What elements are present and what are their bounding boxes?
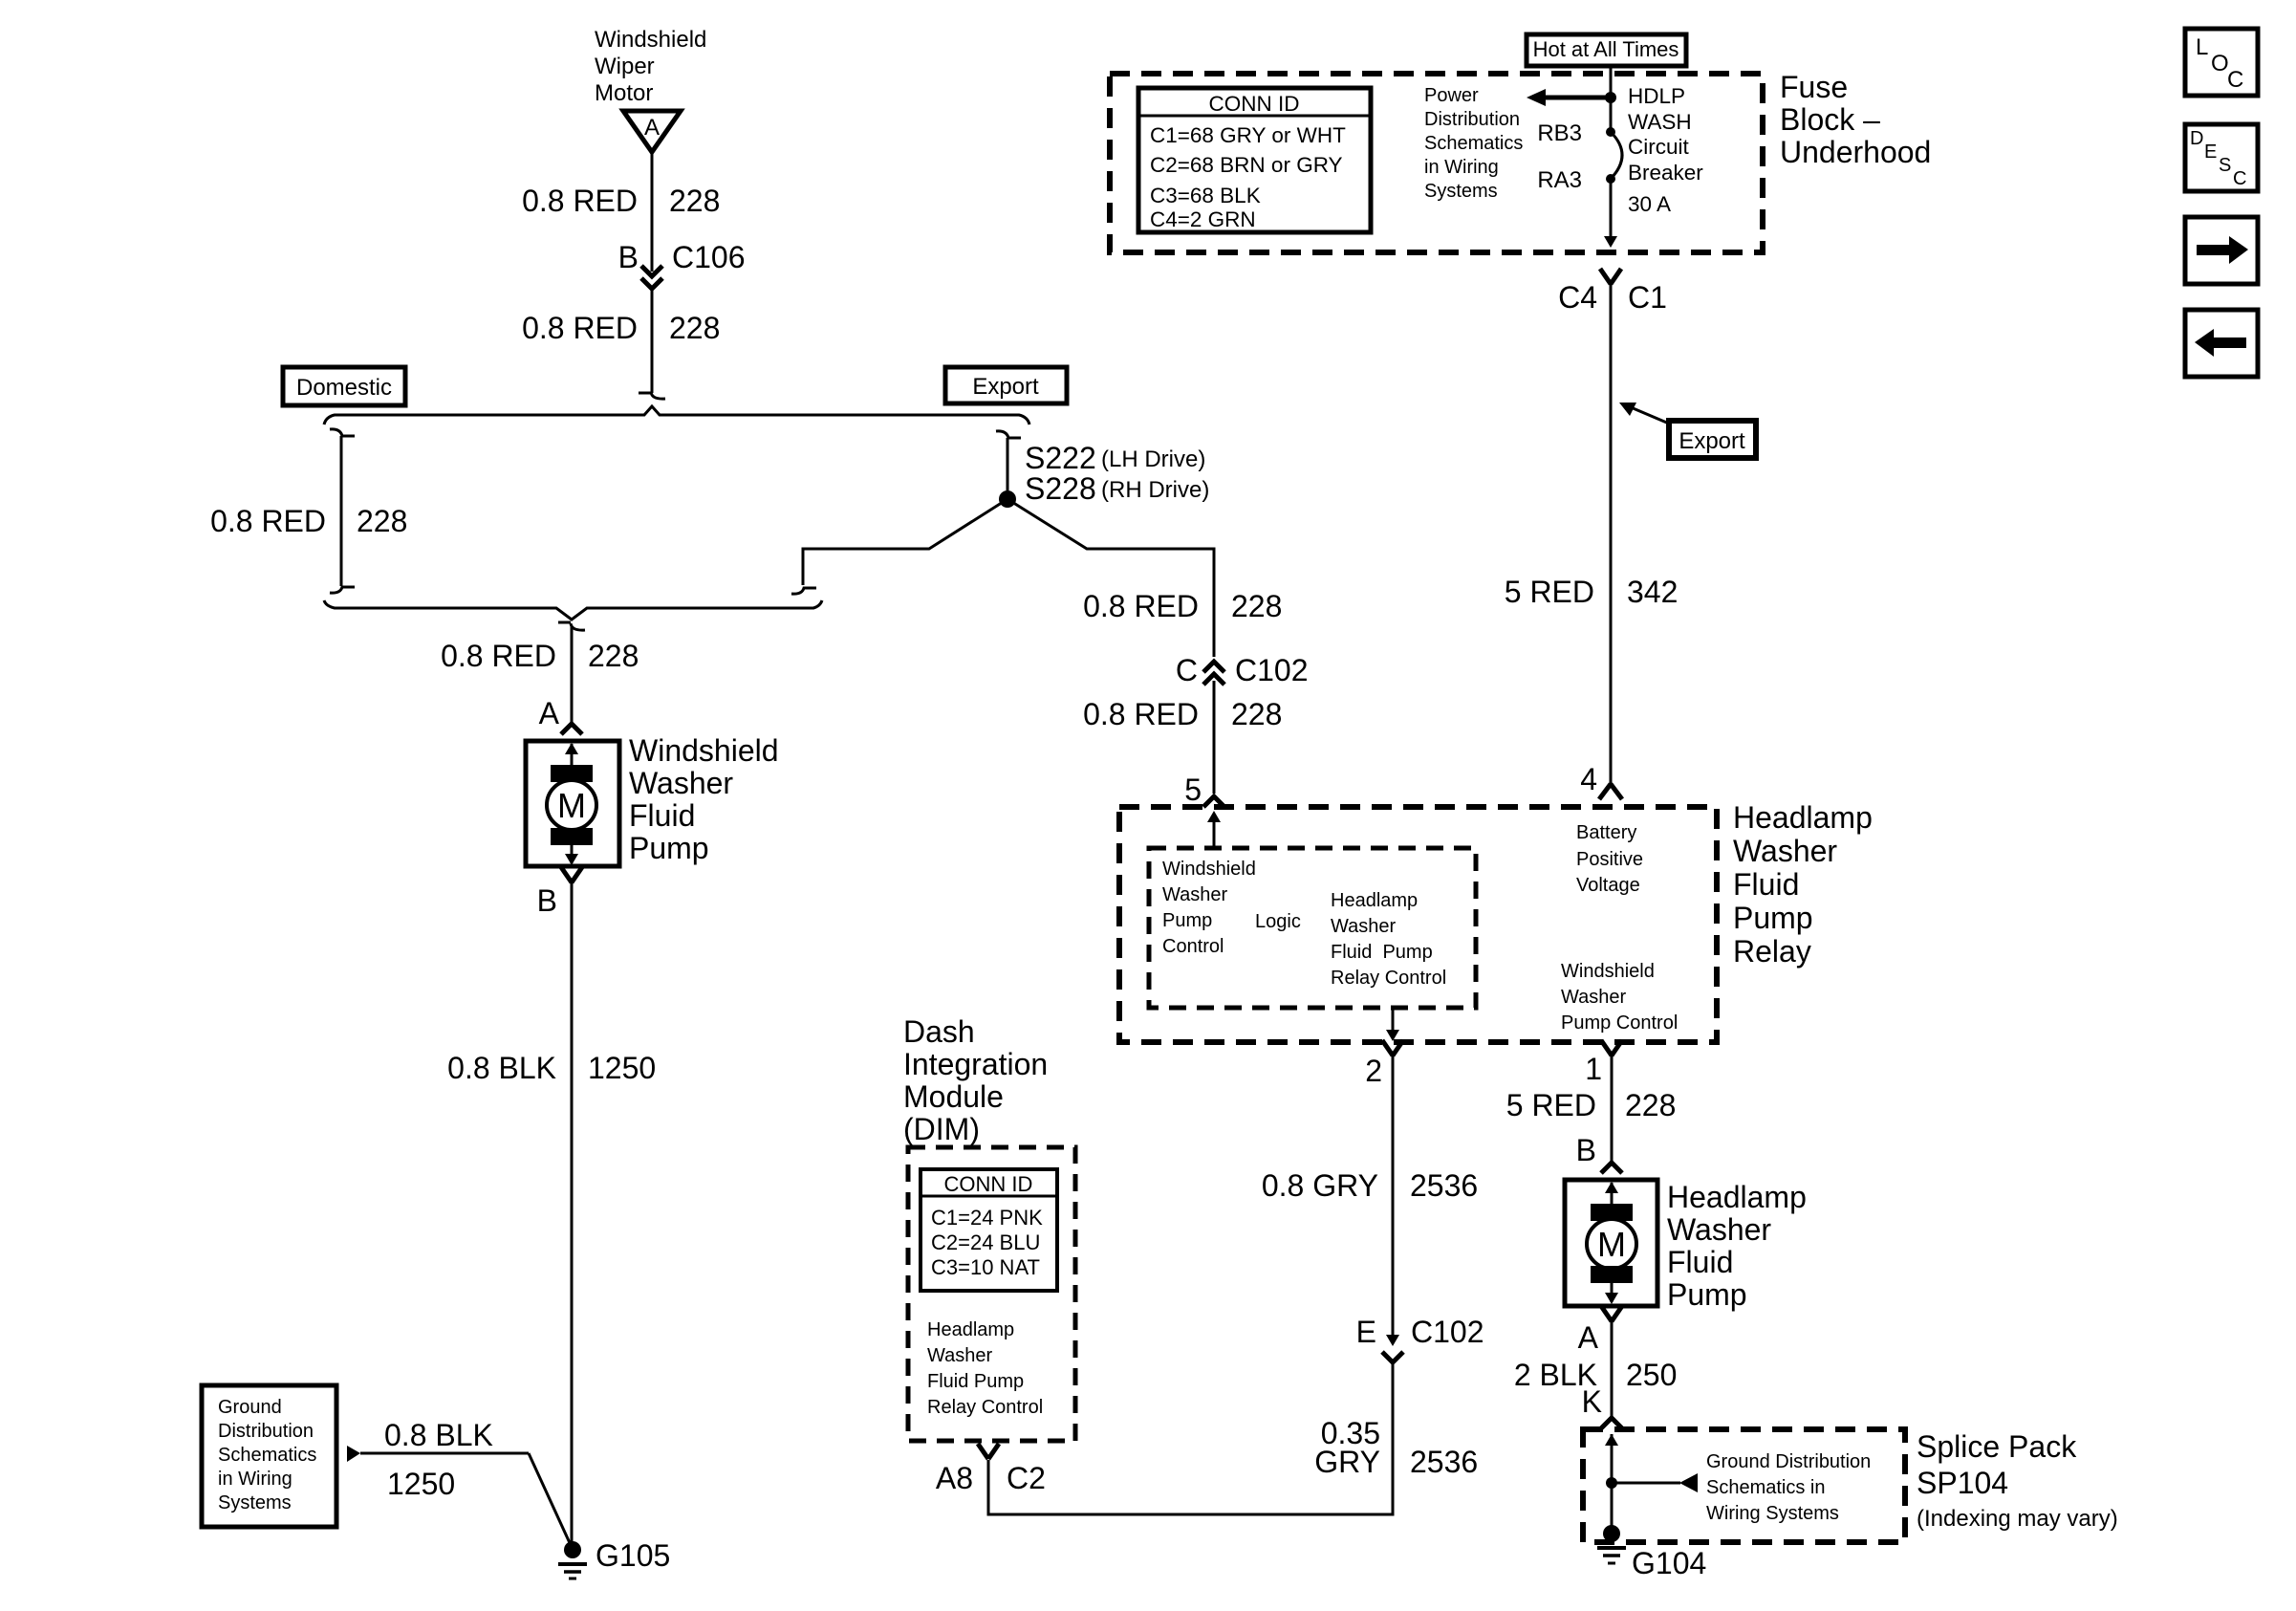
svg-text:C1: C1 bbox=[1628, 280, 1667, 315]
svg-text:Control: Control bbox=[1162, 936, 1224, 957]
connector fork at relay pin 2 bbox=[1382, 1040, 1403, 1056]
svg-text:Pump: Pump bbox=[629, 831, 709, 865]
svg-text:C1=24 PNK: C1=24 PNK bbox=[931, 1206, 1043, 1230]
svg-text:C4=2 GRN: C4=2 GRN bbox=[1150, 207, 1256, 231]
splice S222/S228 bbox=[999, 490, 1016, 508]
svg-text:A8: A8 bbox=[936, 1461, 973, 1495]
svg-text:228: 228 bbox=[669, 184, 720, 218]
svg-text:Hot at All Times: Hot at All Times bbox=[1533, 37, 1679, 61]
svg-text:G105: G105 bbox=[596, 1538, 670, 1573]
dash integration module label bbox=[903, 1014, 1048, 1146]
bottom options brace bbox=[324, 600, 822, 620]
ground G105 bbox=[558, 1541, 587, 1578]
svg-text:M: M bbox=[1597, 1225, 1626, 1264]
svg-text:Schematics in: Schematics in bbox=[1706, 1477, 1826, 1498]
reference arrow to ground distribution (splice pack) bbox=[1612, 1473, 1698, 1492]
svg-text:Wiper: Wiper bbox=[595, 54, 655, 79]
CONN ID table (fuse block) bbox=[1138, 88, 1371, 232]
svg-text:C106: C106 bbox=[672, 240, 746, 274]
svg-text:E: E bbox=[2204, 142, 2217, 163]
svg-text:Headlamp: Headlamp bbox=[1331, 890, 1418, 911]
svg-text:S228: S228 bbox=[1025, 471, 1096, 506]
in-line connector E C102 chevron bbox=[1382, 1352, 1403, 1362]
ground distribution reference text (splice pack) bbox=[1706, 1451, 1871, 1524]
wire inside splice pack with up arrow bbox=[1605, 1434, 1618, 1530]
Hot at All Times label box bbox=[1527, 34, 1686, 66]
svg-text:1: 1 bbox=[1585, 1052, 1602, 1086]
svg-text:in Wiring: in Wiring bbox=[1424, 157, 1499, 178]
svg-text:Breaker: Breaker bbox=[1628, 161, 1703, 185]
svg-text:0.8 RED: 0.8 RED bbox=[522, 311, 638, 345]
svg-text:0.8 RED: 0.8 RED bbox=[1083, 697, 1199, 731]
svg-text:Module: Module bbox=[903, 1079, 1004, 1114]
wire from wiper motor pin A down to C106 bbox=[651, 152, 654, 272]
svg-text:Relay Control: Relay Control bbox=[1331, 968, 1446, 989]
connector chevron at pump pin A bbox=[561, 724, 582, 734]
svg-text:Integration: Integration bbox=[903, 1047, 1048, 1081]
svg-text:Pump: Pump bbox=[1733, 901, 1813, 935]
svg-text:(DIM): (DIM) bbox=[903, 1112, 980, 1146]
svg-text:Headlamp: Headlamp bbox=[1667, 1180, 1807, 1214]
svg-text:Logic: Logic bbox=[1255, 911, 1301, 932]
wire end curl above top brace bbox=[639, 392, 665, 399]
svg-text:250: 250 bbox=[1626, 1358, 1677, 1392]
wire splice to right (to middle branch) bbox=[1007, 499, 1214, 657]
wire label 5 RED 228 bbox=[1506, 1088, 1677, 1122]
wire from bottom brace to washer pump bbox=[571, 626, 574, 725]
relay pin 4 function text battery positive voltage bbox=[1576, 822, 1643, 896]
svg-text:M: M bbox=[557, 786, 586, 825]
Export label box (right) bbox=[1669, 421, 1756, 458]
svg-text:Underhood: Underhood bbox=[1780, 135, 1931, 169]
svg-text:Wiring Systems: Wiring Systems bbox=[1706, 1503, 1839, 1524]
svg-text:Washer: Washer bbox=[1667, 1212, 1771, 1247]
svg-text:C2=24 BLU: C2=24 BLU bbox=[931, 1230, 1040, 1254]
export branch wire stub below top brace bbox=[996, 431, 1021, 490]
svg-text:Block –: Block – bbox=[1780, 102, 1880, 137]
svg-text:Fluid: Fluid bbox=[1667, 1245, 1733, 1279]
dash integration module dashed box bbox=[908, 1147, 1075, 1441]
svg-text:Distribution: Distribution bbox=[1424, 109, 1520, 130]
svg-text:0.8 RED: 0.8 RED bbox=[441, 639, 556, 673]
svg-text:Washer: Washer bbox=[1162, 884, 1228, 905]
svg-text:Splice Pack: Splice Pack bbox=[1917, 1429, 2077, 1464]
wire relay pin 2 down to E C102 bbox=[1386, 1056, 1399, 1346]
svg-text:C1=68 GRY or WHT: C1=68 GRY or WHT bbox=[1150, 123, 1346, 147]
svg-text:Domestic: Domestic bbox=[296, 375, 392, 401]
svg-text:Systems: Systems bbox=[218, 1492, 292, 1513]
relay internal text headlamp washer fluid pump relay control bbox=[1331, 890, 1446, 989]
svg-text:SP104: SP104 bbox=[1917, 1466, 2008, 1500]
svg-text:K: K bbox=[1582, 1384, 1602, 1419]
svg-text:S222: S222 bbox=[1025, 441, 1096, 475]
svg-text:0.8 GRY: 0.8 GRY bbox=[1262, 1168, 1378, 1203]
wire from hot feed into fuse block bbox=[1610, 66, 1613, 98]
wire label 0.35 GRY 2536 bbox=[1314, 1416, 1478, 1479]
svg-text:Washer: Washer bbox=[1331, 916, 1397, 937]
svg-text:0.8 BLK: 0.8 BLK bbox=[384, 1418, 493, 1452]
wire logic box to relay pin 2 with down arrow bbox=[1386, 1008, 1399, 1041]
connector chevron at headlamp pump pin B bbox=[1601, 1163, 1622, 1173]
connector fork at pump pin B bbox=[561, 867, 582, 882]
connector chevron at splice pack pin K bbox=[1601, 1418, 1622, 1428]
svg-text:G104: G104 bbox=[1632, 1546, 1706, 1580]
wire C102 to relay pin 5 bbox=[1213, 681, 1216, 794]
fuse block underhood label bbox=[1780, 70, 1931, 169]
wire label 0.8 BLK 1250 (ground branch) bbox=[384, 1418, 493, 1501]
svg-text:228: 228 bbox=[1231, 697, 1282, 731]
svg-text:GRY: GRY bbox=[1314, 1445, 1380, 1479]
svg-text:CONN ID: CONN ID bbox=[1209, 92, 1300, 116]
svg-text:C3=10 NAT: C3=10 NAT bbox=[931, 1255, 1040, 1279]
svg-text:Washer: Washer bbox=[1733, 834, 1837, 868]
connector fork at relay pin 4 bbox=[1599, 784, 1622, 799]
wire E C102 down and left to DIM bbox=[988, 1362, 1393, 1514]
svg-text:228: 228 bbox=[1231, 589, 1282, 623]
svg-text:1250: 1250 bbox=[588, 1051, 656, 1085]
svg-text:C102: C102 bbox=[1235, 653, 1309, 687]
power distribution reference text bbox=[1424, 85, 1523, 202]
svg-text:Ground: Ground bbox=[218, 1397, 282, 1418]
svg-text:O: O bbox=[2211, 51, 2229, 76]
svg-text:Windshield: Windshield bbox=[595, 27, 706, 53]
wire relay pin 5 into logic box with up arrow bbox=[1207, 811, 1221, 848]
svg-text:C3=68 BLK: C3=68 BLK bbox=[1150, 184, 1261, 207]
in-line connector C106 chevrons bbox=[641, 266, 662, 289]
windshield washer fluid pump label bbox=[629, 733, 779, 865]
wire label 0.8 RED 228 (middle branch upper) bbox=[1083, 589, 1282, 623]
wire relay pin 1 to headlamp washer pump bbox=[1611, 1056, 1614, 1163]
svg-text:C2: C2 bbox=[1007, 1461, 1046, 1495]
motor M1 windshield washer fluid pump bbox=[526, 741, 619, 866]
connector fork at relay pin 1 bbox=[1601, 1040, 1622, 1056]
circuit breaker element bbox=[1611, 132, 1622, 179]
reference arrow to power distribution bbox=[1527, 89, 1611, 106]
connector fork C4/C1 bbox=[1600, 269, 1621, 284]
svg-text:Schematics: Schematics bbox=[1424, 133, 1523, 154]
relay logic inner dashed box bbox=[1149, 848, 1476, 1008]
svg-text:342: 342 bbox=[1627, 575, 1678, 609]
svg-text:2: 2 bbox=[1365, 1054, 1382, 1088]
wire label 2 BLK 250 bbox=[1514, 1358, 1678, 1392]
svg-text:B: B bbox=[537, 883, 557, 918]
svg-text:WASH: WASH bbox=[1628, 110, 1692, 134]
wire headlamp pump A to splice pack bbox=[1611, 1321, 1614, 1418]
svg-text:(RH Drive): (RH Drive) bbox=[1101, 477, 1209, 503]
junction node in splice pack bbox=[1606, 1477, 1617, 1489]
svg-text:228: 228 bbox=[357, 504, 407, 538]
svg-text:B: B bbox=[618, 240, 639, 274]
svg-text:Windshield: Windshield bbox=[1561, 961, 1655, 982]
svg-text:Fluid: Fluid bbox=[1733, 867, 1799, 902]
svg-text:Windshield: Windshield bbox=[629, 733, 779, 768]
in-line connector C102 chevrons bbox=[1203, 662, 1224, 685]
svg-text:5: 5 bbox=[1184, 773, 1202, 807]
svg-text:Washer: Washer bbox=[927, 1345, 993, 1366]
headlamp washer fluid pump relay dashed box bbox=[1119, 807, 1717, 1042]
Domestic option label box bbox=[283, 367, 405, 405]
svg-text:Export: Export bbox=[972, 374, 1039, 400]
wire breaker to fuse block exit with arrow bbox=[1604, 179, 1617, 248]
svg-text:0.8 RED: 0.8 RED bbox=[522, 184, 638, 218]
svg-text:A: A bbox=[1578, 1320, 1599, 1355]
wire label 5 RED 342 bbox=[1505, 575, 1679, 609]
svg-text:Washer: Washer bbox=[1561, 987, 1627, 1008]
connector chevron at relay pin 5 bbox=[1203, 796, 1224, 807]
svg-text:D: D bbox=[2190, 128, 2203, 149]
svg-text:E: E bbox=[1356, 1315, 1376, 1349]
svg-text:Fluid: Fluid bbox=[629, 798, 695, 833]
wire label 0.8 RED 228 (upper) bbox=[522, 184, 720, 218]
svg-text:C: C bbox=[2233, 168, 2246, 189]
DIM pin function text headlamp washer fluid pump relay control bbox=[927, 1319, 1043, 1418]
svg-text:CONN ID: CONN ID bbox=[944, 1172, 1033, 1196]
fuse block underhood dashed box bbox=[1110, 74, 1763, 252]
svg-text:A: A bbox=[644, 115, 660, 141]
splice labels bbox=[1025, 441, 1209, 506]
relay internal text windshield washer pump control bbox=[1162, 859, 1256, 957]
wire label 0.8 GRY 2536 bbox=[1262, 1168, 1478, 1203]
domestic branch wire bracket bbox=[330, 429, 355, 593]
svg-text:Relay: Relay bbox=[1733, 934, 1811, 969]
DESC icon box bbox=[2185, 124, 2258, 191]
svg-text:Distribution: Distribution bbox=[218, 1421, 314, 1442]
wire from C106 down to options brace bbox=[651, 289, 654, 393]
svg-text:Relay Control: Relay Control bbox=[927, 1397, 1043, 1418]
svg-text:A: A bbox=[539, 696, 560, 730]
windshield wiper motor label bbox=[595, 27, 706, 106]
svg-text:Circuit: Circuit bbox=[1628, 135, 1690, 159]
svg-text:0.8 RED: 0.8 RED bbox=[210, 504, 326, 538]
svg-text:0.8 BLK: 0.8 BLK bbox=[447, 1051, 556, 1085]
svg-text:4: 4 bbox=[1580, 762, 1597, 796]
svg-text:C102: C102 bbox=[1411, 1315, 1484, 1349]
svg-text:Positive: Positive bbox=[1576, 849, 1643, 870]
svg-text:30 A: 30 A bbox=[1628, 192, 1671, 216]
svg-text:L: L bbox=[2196, 34, 2208, 60]
forward arrow icon box bbox=[2185, 217, 2258, 284]
svg-text:Dash: Dash bbox=[903, 1014, 975, 1049]
LOC icon box bbox=[2185, 29, 2258, 96]
Export option label box (top) bbox=[945, 367, 1067, 403]
svg-text:Fluid Pump: Fluid Pump bbox=[1331, 942, 1433, 963]
svg-text:Pump: Pump bbox=[1162, 910, 1212, 931]
svg-text:Headlamp: Headlamp bbox=[927, 1319, 1014, 1340]
headlamp washer fluid pump label bbox=[1667, 1180, 1807, 1312]
svg-text:C: C bbox=[2227, 67, 2243, 93]
svg-text:Washer: Washer bbox=[629, 766, 733, 800]
svg-text:(Indexing may vary): (Indexing may vary) bbox=[1917, 1506, 2118, 1532]
svg-text:0.8 RED: 0.8 RED bbox=[1083, 589, 1199, 623]
splice pack SP104 dashed box bbox=[1583, 1429, 1905, 1542]
svg-text:Motor: Motor bbox=[595, 80, 653, 106]
svg-text:Voltage: Voltage bbox=[1576, 875, 1640, 896]
svg-text:HDLP: HDLP bbox=[1628, 84, 1685, 108]
svg-text:Schematics: Schematics bbox=[218, 1445, 316, 1466]
svg-text:228: 228 bbox=[1625, 1088, 1676, 1122]
svg-text:in Wiring: in Wiring bbox=[218, 1469, 292, 1490]
wire junction to RB3 bbox=[1610, 98, 1613, 132]
svg-text:Pump: Pump bbox=[1667, 1277, 1747, 1312]
wire label 0.8 BLK 1250 bbox=[447, 1051, 656, 1085]
svg-text:228: 228 bbox=[588, 639, 639, 673]
ground G104 bbox=[1597, 1525, 1626, 1563]
wire pump B to ground G105 bbox=[571, 882, 574, 1542]
svg-text:5 RED: 5 RED bbox=[1506, 1088, 1596, 1122]
connector fork at headlamp pump pin A bbox=[1601, 1306, 1622, 1321]
svg-text:2536: 2536 bbox=[1410, 1445, 1478, 1479]
svg-text:Systems: Systems bbox=[1424, 181, 1498, 202]
connector fork at DIM pin A8 bbox=[978, 1444, 999, 1459]
main feed wire C1 down to relay pin 4 bbox=[1610, 284, 1613, 784]
connector triangle A (windshield wiper motor) bbox=[623, 111, 681, 152]
svg-text:Export: Export bbox=[1679, 428, 1745, 454]
relay pin 1 function text windshield washer pump control bbox=[1561, 961, 1678, 1034]
terminal RA3 node bbox=[1606, 174, 1615, 184]
reference arrow from ground distribution box bbox=[347, 1446, 529, 1462]
svg-text:Windshield: Windshield bbox=[1162, 859, 1256, 880]
wire label 0.8 RED 228 (to pump) bbox=[441, 639, 639, 673]
svg-text:5 RED: 5 RED bbox=[1505, 575, 1594, 609]
junction node at hot feed bbox=[1605, 92, 1616, 103]
HDLP WASH circuit breaker label bbox=[1628, 84, 1703, 216]
svg-text:Power: Power bbox=[1424, 85, 1479, 106]
top options brace bbox=[324, 406, 1029, 425]
headlamp washer fluid pump relay label bbox=[1733, 800, 1873, 969]
export arrow marker bbox=[1619, 403, 1669, 424]
svg-text:C: C bbox=[1176, 653, 1198, 687]
svg-text:1250: 1250 bbox=[387, 1467, 455, 1501]
splice pack SP104 label bbox=[1917, 1429, 2118, 1532]
svg-text:Ground Distribution: Ground Distribution bbox=[1706, 1451, 1871, 1472]
svg-text:S: S bbox=[2219, 155, 2231, 176]
svg-text:Fluid Pump: Fluid Pump bbox=[927, 1371, 1024, 1392]
motor M2 headlamp washer fluid pump bbox=[1565, 1180, 1657, 1306]
svg-text:228: 228 bbox=[669, 311, 720, 345]
svg-text:(LH Drive): (LH Drive) bbox=[1101, 446, 1205, 472]
CONN ID table (DIM) bbox=[921, 1169, 1057, 1291]
svg-text:Fuse: Fuse bbox=[1780, 70, 1848, 104]
wire label 0.8 RED 228 (below C106) bbox=[522, 311, 720, 345]
terminal RB3 node bbox=[1606, 127, 1615, 137]
svg-text:C4: C4 bbox=[1558, 280, 1597, 315]
wire label 0.8 RED 228 (middle branch lower) bbox=[1083, 697, 1282, 731]
back arrow icon box bbox=[2185, 310, 2258, 377]
wire ground branch diagonal bbox=[529, 1453, 571, 1545]
wire curl below bottom brace bbox=[558, 622, 585, 630]
svg-text:C2=68 BRN or GRY: C2=68 BRN or GRY bbox=[1150, 153, 1343, 177]
svg-text:RB3: RB3 bbox=[1537, 120, 1582, 146]
svg-text:B: B bbox=[1576, 1133, 1596, 1167]
svg-text:Pump Control: Pump Control bbox=[1561, 1012, 1678, 1034]
svg-text:Headlamp: Headlamp bbox=[1733, 800, 1873, 835]
wire splice to left (to bottom brace) bbox=[791, 499, 1007, 594]
svg-text:Battery: Battery bbox=[1576, 822, 1636, 843]
ground distribution reference box bbox=[202, 1385, 336, 1527]
wire label 0.8 RED 228 (domestic branch) bbox=[210, 504, 407, 538]
svg-text:2536: 2536 bbox=[1410, 1168, 1478, 1203]
svg-text:RA3: RA3 bbox=[1537, 167, 1582, 193]
